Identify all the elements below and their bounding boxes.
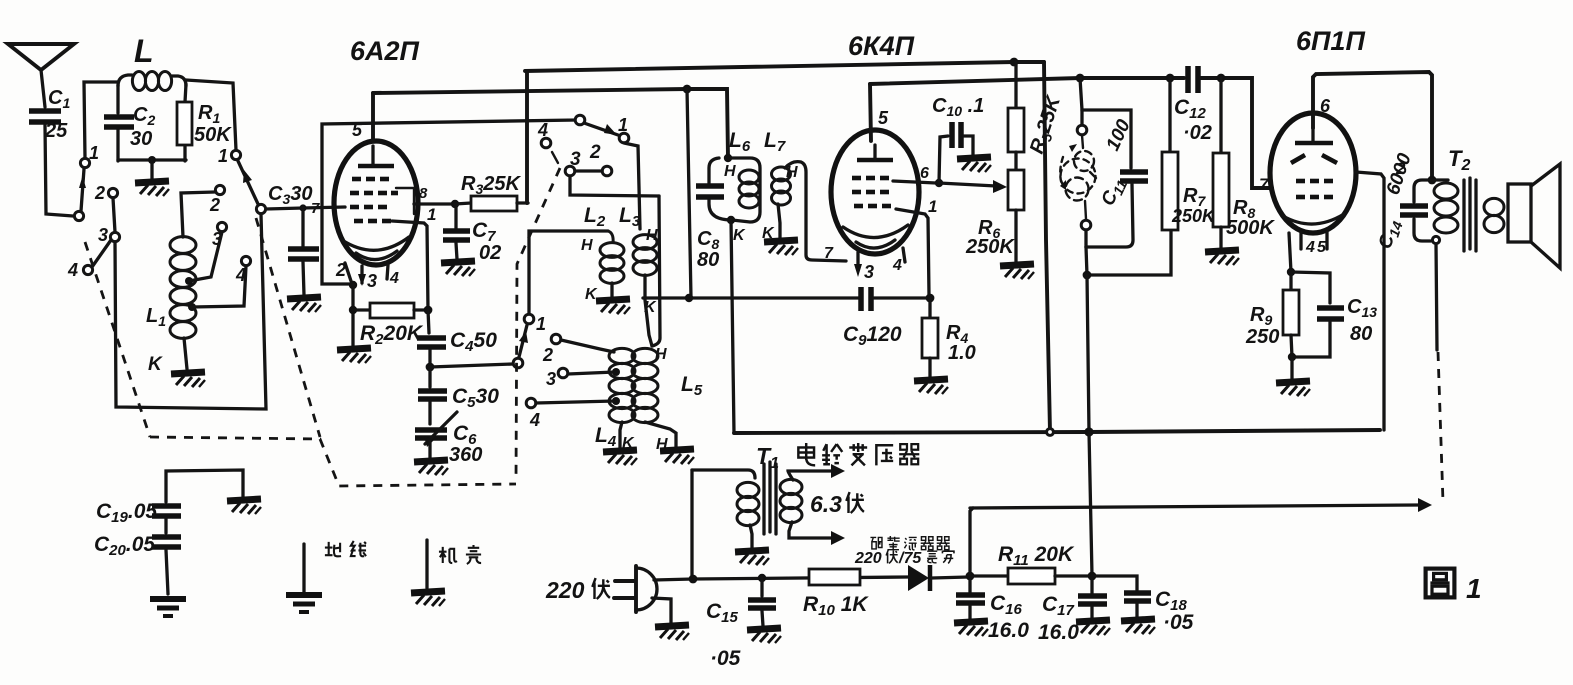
svg-text:L: L — [134, 33, 154, 69]
svg-text:1: 1 — [618, 115, 628, 135]
contact 1c — [524, 314, 534, 324]
rectifier B+ line to T2 with arrow — [970, 498, 1432, 512]
ground under L5 — [660, 449, 694, 464]
ground under C3 — [287, 297, 321, 312]
svg-text:4: 4 — [1305, 239, 1315, 256]
coil L2 — [581, 204, 624, 303]
ground upper right of C19 — [227, 499, 261, 514]
pins 4 5 stubs — [1301, 232, 1327, 256]
switch S1a pivot — [74, 211, 83, 220]
svg-text:250K: 250K — [1171, 206, 1217, 226]
B+ screen rail — [734, 430, 1380, 433]
svg-text:4: 4 — [389, 270, 399, 287]
svg-text:4: 4 — [537, 120, 548, 140]
resistor R1 — [177, 102, 192, 145]
6А2П internals — [342, 146, 414, 260]
svg-text:3: 3 — [367, 271, 377, 291]
capacitor C13 — [1292, 296, 1377, 357]
svg-text:1: 1 — [536, 314, 546, 334]
capacitor C2 — [104, 114, 134, 120]
wire contact2b to L1 top — [181, 192, 215, 237]
wire 2-3 — [113, 198, 115, 232]
svg-text:3: 3 — [864, 262, 874, 282]
svg-text:H: H — [786, 164, 798, 181]
contact 3c — [558, 368, 568, 378]
coil L block — [104, 33, 232, 179]
contact 3 — [110, 232, 119, 241]
L6 return to B+ rail — [731, 220, 734, 433]
svg-text:K: K — [733, 227, 746, 244]
svg-text:C330: C330 — [268, 183, 313, 207]
6П1П internals — [1283, 128, 1344, 224]
coil L1 — [146, 237, 196, 339]
pin 6 plate lead — [1313, 72, 1432, 178]
svg-text:8: 8 — [419, 185, 428, 202]
caption figure 1 — [1426, 569, 1482, 604]
mains plug — [545, 566, 657, 612]
pin 4 stub — [387, 265, 399, 287]
caption 220 fu — [592, 578, 610, 599]
cathode network — [1289, 233, 1291, 272]
ganged-switch dashed link — [85, 242, 150, 437]
pin 2 screen lead — [1356, 172, 1384, 430]
capacitor C20 — [94, 519, 181, 594]
caption 6.3 fu — [846, 492, 864, 513]
capacitor C4 — [417, 310, 497, 366]
ground under L1 — [171, 372, 205, 387]
ground under R2 left — [337, 348, 371, 363]
wire rail to L5 — [652, 196, 660, 346]
switch S1c arm — [519, 325, 528, 357]
dashed gang link from S1b — [256, 218, 320, 437]
mains line to C15 node — [654, 577, 908, 580]
T1 primary — [692, 470, 759, 548]
tuning eye tube — [1060, 110, 1096, 247]
svg-text:6К4П: 6К4П — [848, 31, 915, 61]
T1 primary drop to mains — [690, 470, 693, 577]
capacitor C17 — [1038, 572, 1107, 644]
wire antenna to switch pivot — [45, 125, 73, 216]
L1 tap to contact 4b — [188, 266, 246, 311]
tube 6К4П envelope — [831, 130, 919, 254]
contact 4 — [83, 265, 92, 274]
ground under L — [135, 181, 169, 196]
svg-text:360: 360 — [449, 444, 482, 466]
svg-text:80: 80 — [697, 249, 719, 271]
wire contact4c to L4 tap — [536, 401, 615, 403]
T2 core — [1464, 178, 1476, 251]
svg-text:250: 250 — [1245, 326, 1279, 348]
svg-text:25: 25 — [44, 120, 68, 142]
tube 6П1П envelope — [1270, 113, 1356, 233]
svg-text:4: 4 — [529, 410, 540, 430]
resistor R4 — [922, 298, 976, 377]
capacitor C10 — [932, 95, 984, 183]
svg-text:H: H — [724, 163, 736, 180]
pin 8 wire — [414, 202, 455, 205]
resistor R3 — [455, 173, 528, 211]
plate bus to L6 — [373, 89, 728, 158]
svg-text:R325K: R325K — [461, 173, 521, 197]
pin 4 stub — [892, 248, 905, 274]
capacitor C11 — [1086, 116, 1148, 247]
resistor R7 — [1162, 78, 1217, 230]
T2 secondary / voice coil — [1484, 198, 1504, 232]
svg-text:50K: 50K — [194, 124, 232, 146]
svg-text:5: 5 — [1317, 239, 1327, 256]
rectifier diode — [908, 565, 968, 591]
ground under R6 — [1000, 264, 1034, 279]
wire L to band contact 1 — [186, 80, 236, 150]
resistor R9 — [1245, 272, 1299, 357]
contact 4d — [541, 138, 551, 148]
svg-text:1: 1 — [89, 143, 99, 163]
switch S1a arm to contact 1 — [79, 169, 86, 211]
dashed gang link upper — [516, 168, 560, 481]
svg-text:1: 1 — [427, 205, 436, 224]
tube 6А2П envelope — [334, 141, 418, 265]
svg-text:·02: ·02 — [1183, 122, 1212, 144]
wire contact1 up to L — [84, 82, 118, 158]
coil L5 — [632, 346, 703, 453]
svg-text:H: H — [581, 237, 593, 254]
switch S1d pivot on bus3 — [575, 115, 585, 125]
transformer T2 primary — [1414, 176, 1458, 244]
B+ riser right — [1044, 62, 1050, 432]
L1 tap to contact 3b — [185, 232, 222, 285]
plug lower lead to ground — [652, 598, 671, 623]
ground under T1 primary — [735, 550, 769, 565]
wire contact 1d down to L3 — [624, 143, 640, 229]
switch S1d arm — [584, 123, 618, 135]
svg-text:02: 02 — [479, 242, 501, 264]
svg-text:7: 7 — [824, 245, 834, 262]
svg-text:1: 1 — [218, 146, 228, 166]
svg-text:2: 2 — [542, 345, 553, 365]
resistor R10 — [803, 569, 869, 619]
svg-text:30: 30 — [130, 128, 152, 150]
svg-text:K: K — [644, 299, 657, 316]
L loops — [132, 72, 145, 91]
svg-text:1.0: 1.0 — [948, 342, 976, 364]
wire contact1c feed — [529, 231, 608, 314]
svg-text:R11 20K: R11 20K — [998, 543, 1075, 569]
capacitor C14 — [1375, 150, 1428, 252]
ground under R8 — [1205, 250, 1239, 265]
svg-text:6: 6 — [1320, 96, 1331, 116]
caption di xian — [325, 541, 366, 556]
svg-text:K: K — [148, 354, 163, 375]
svg-text:/75: /75 — [898, 550, 922, 567]
capacitor C12 — [1174, 66, 1212, 144]
pin 5 lead — [870, 84, 871, 141]
svg-text:C530: C530 — [452, 385, 499, 411]
svg-text:4: 4 — [67, 260, 78, 280]
eye top feed — [1080, 78, 1131, 168]
left edge with C2 — [116, 85, 119, 113]
resistor R11 — [970, 543, 1092, 584]
svg-text:220: 220 — [545, 577, 585, 603]
switch S1e pole pair — [565, 166, 575, 176]
svg-text:R10 1K: R10 1K — [803, 593, 869, 619]
resistor R6 — [965, 152, 1024, 262]
ground under C6 — [414, 460, 448, 475]
capacitor C9 — [843, 287, 928, 349]
wire contact2c to L4 — [561, 340, 614, 352]
caption selenium rectifier — [854, 536, 954, 567]
wire S1e pivot down to y196 rail — [570, 176, 659, 196]
grid-2 side wire from bus3 — [322, 120, 577, 284]
pin 2 stub — [345, 263, 351, 281]
svg-text:3: 3 — [98, 225, 108, 245]
svg-text:16.0: 16.0 — [988, 619, 1029, 642]
node at C16 — [966, 572, 975, 581]
T1 core — [764, 462, 776, 534]
ground under R9/C13 — [1276, 381, 1310, 396]
contact 2 — [108, 188, 117, 197]
variable capacitor C6 — [415, 412, 482, 466]
capacitor C1 — [29, 87, 70, 142]
svg-text:6.3: 6.3 — [810, 491, 842, 517]
svg-text:6П1П: 6П1П — [1296, 26, 1365, 56]
earth ground under C20 — [150, 599, 186, 616]
pin 3 stub — [358, 266, 377, 291]
pin 6 wire with volume arrow — [893, 165, 1007, 193]
svg-text:·05: ·05 — [710, 647, 741, 670]
svg-text:C450: C450 — [450, 329, 497, 355]
svg-text:500K: 500K — [1226, 217, 1275, 239]
L1 bottom lead — [184, 338, 187, 369]
resistor R8 — [1213, 78, 1275, 248]
ground under L7 — [764, 240, 798, 255]
svg-text:16.0: 16.0 — [1038, 621, 1079, 644]
contact 3b — [217, 222, 226, 231]
svg-text:7: 7 — [1259, 175, 1270, 194]
svg-text:250K: 250K — [965, 236, 1015, 258]
svg-text:C9120: C9120 — [843, 323, 902, 349]
capacitor C19 — [96, 470, 243, 526]
capacitor C15 — [706, 574, 776, 670]
contact 1b — [231, 150, 240, 159]
resistor R2 — [353, 303, 428, 348]
junction on plate bus — [683, 85, 692, 94]
contact 4b — [241, 256, 250, 265]
earth terminal (di xian) — [302, 544, 305, 592]
wire 3-4 — [92, 240, 111, 267]
ground under L2 — [596, 299, 630, 314]
coil L7 — [762, 129, 846, 262]
svg-text:5: 5 — [878, 108, 889, 128]
T1 6.3V secondary — [780, 464, 845, 545]
6К4П internals — [843, 145, 908, 248]
ground under C10 — [957, 157, 991, 172]
svg-text:1: 1 — [928, 197, 937, 216]
svg-text:6А2П: 6А2П — [350, 36, 420, 66]
svg-text:6: 6 — [920, 165, 929, 182]
filtered B+ riser — [1089, 432, 1092, 575]
svg-text:2: 2 — [589, 142, 601, 163]
IF transformer L6/C8 box — [696, 129, 760, 271]
cathode drop with R2 — [349, 281, 357, 289]
svg-text:·05: ·05 — [1163, 611, 1194, 634]
capacitor C5 — [418, 367, 499, 424]
screen bus toward 6P1P grid — [870, 78, 1184, 84]
speaker — [1508, 164, 1560, 268]
pin 5 lead — [371, 93, 375, 141]
svg-text:H: H — [655, 346, 667, 363]
svg-text:4: 4 — [892, 257, 902, 274]
node C4/C5 to switch pivot — [426, 363, 435, 372]
AVC drop wire — [687, 89, 691, 298]
coil L4 — [595, 348, 635, 452]
T2 bottom lead down — [1436, 244, 1437, 350]
switch S1c pivot — [513, 358, 523, 368]
svg-text:2: 2 — [209, 195, 220, 215]
capacitor C3 — [268, 183, 319, 295]
contact 2b — [215, 185, 224, 194]
svg-text:H: H — [646, 227, 658, 244]
right edge with R1 — [185, 84, 186, 102]
pin 1 lead — [896, 197, 937, 295]
AVC rail — [643, 296, 860, 299]
eye cathode to R7 bottom rail — [1086, 230, 1171, 275]
contact 1d — [619, 133, 629, 143]
unfiltered B+ riser — [970, 508, 973, 576]
caption ji ke — [439, 545, 481, 564]
ground under C7 — [441, 261, 475, 276]
contact 2c — [551, 334, 561, 344]
svg-text:80: 80 — [1350, 323, 1372, 345]
pin 3 stub — [854, 252, 874, 282]
coil L3 — [619, 204, 658, 346]
wire contact3c to L4 tap — [568, 372, 615, 374]
contact 4c — [526, 398, 536, 408]
capacitor C7 — [443, 204, 501, 264]
wire C3 node: switch S1b pivot to grid — [266, 207, 345, 209]
svg-text:2: 2 — [335, 260, 346, 280]
ground under L4 — [603, 450, 637, 465]
bottom edge — [118, 158, 186, 161]
antenna — [8, 44, 74, 107]
pin 1 lead to R2/C4 — [392, 205, 436, 310]
spare arm mark — [552, 152, 558, 163]
chassis terminal (ji ke) — [425, 540, 428, 588]
dashed gang link horizontals — [150, 437, 516, 486]
ground under R4 — [914, 379, 948, 394]
svg-text:3: 3 — [546, 369, 556, 389]
contact 1 — [80, 158, 89, 167]
svg-text:220: 220 — [854, 550, 882, 567]
B+ top bus — [525, 62, 1044, 71]
capacitor C18 — [1092, 576, 1194, 634]
resistor R5 — [1008, 62, 1067, 157]
switch S1b pivot — [256, 204, 265, 213]
svg-text:2: 2 — [94, 183, 105, 203]
capacitor C16 — [956, 576, 1029, 642]
switch S1b arm — [238, 161, 258, 204]
caption T1 dianling bianyaqi — [798, 443, 919, 465]
screen feed riser — [525, 71, 529, 203]
svg-text:1: 1 — [1466, 573, 1482, 604]
wire contact3 down to L1 frame — [115, 214, 266, 409]
svg-text:R220K: R220K — [360, 322, 424, 348]
